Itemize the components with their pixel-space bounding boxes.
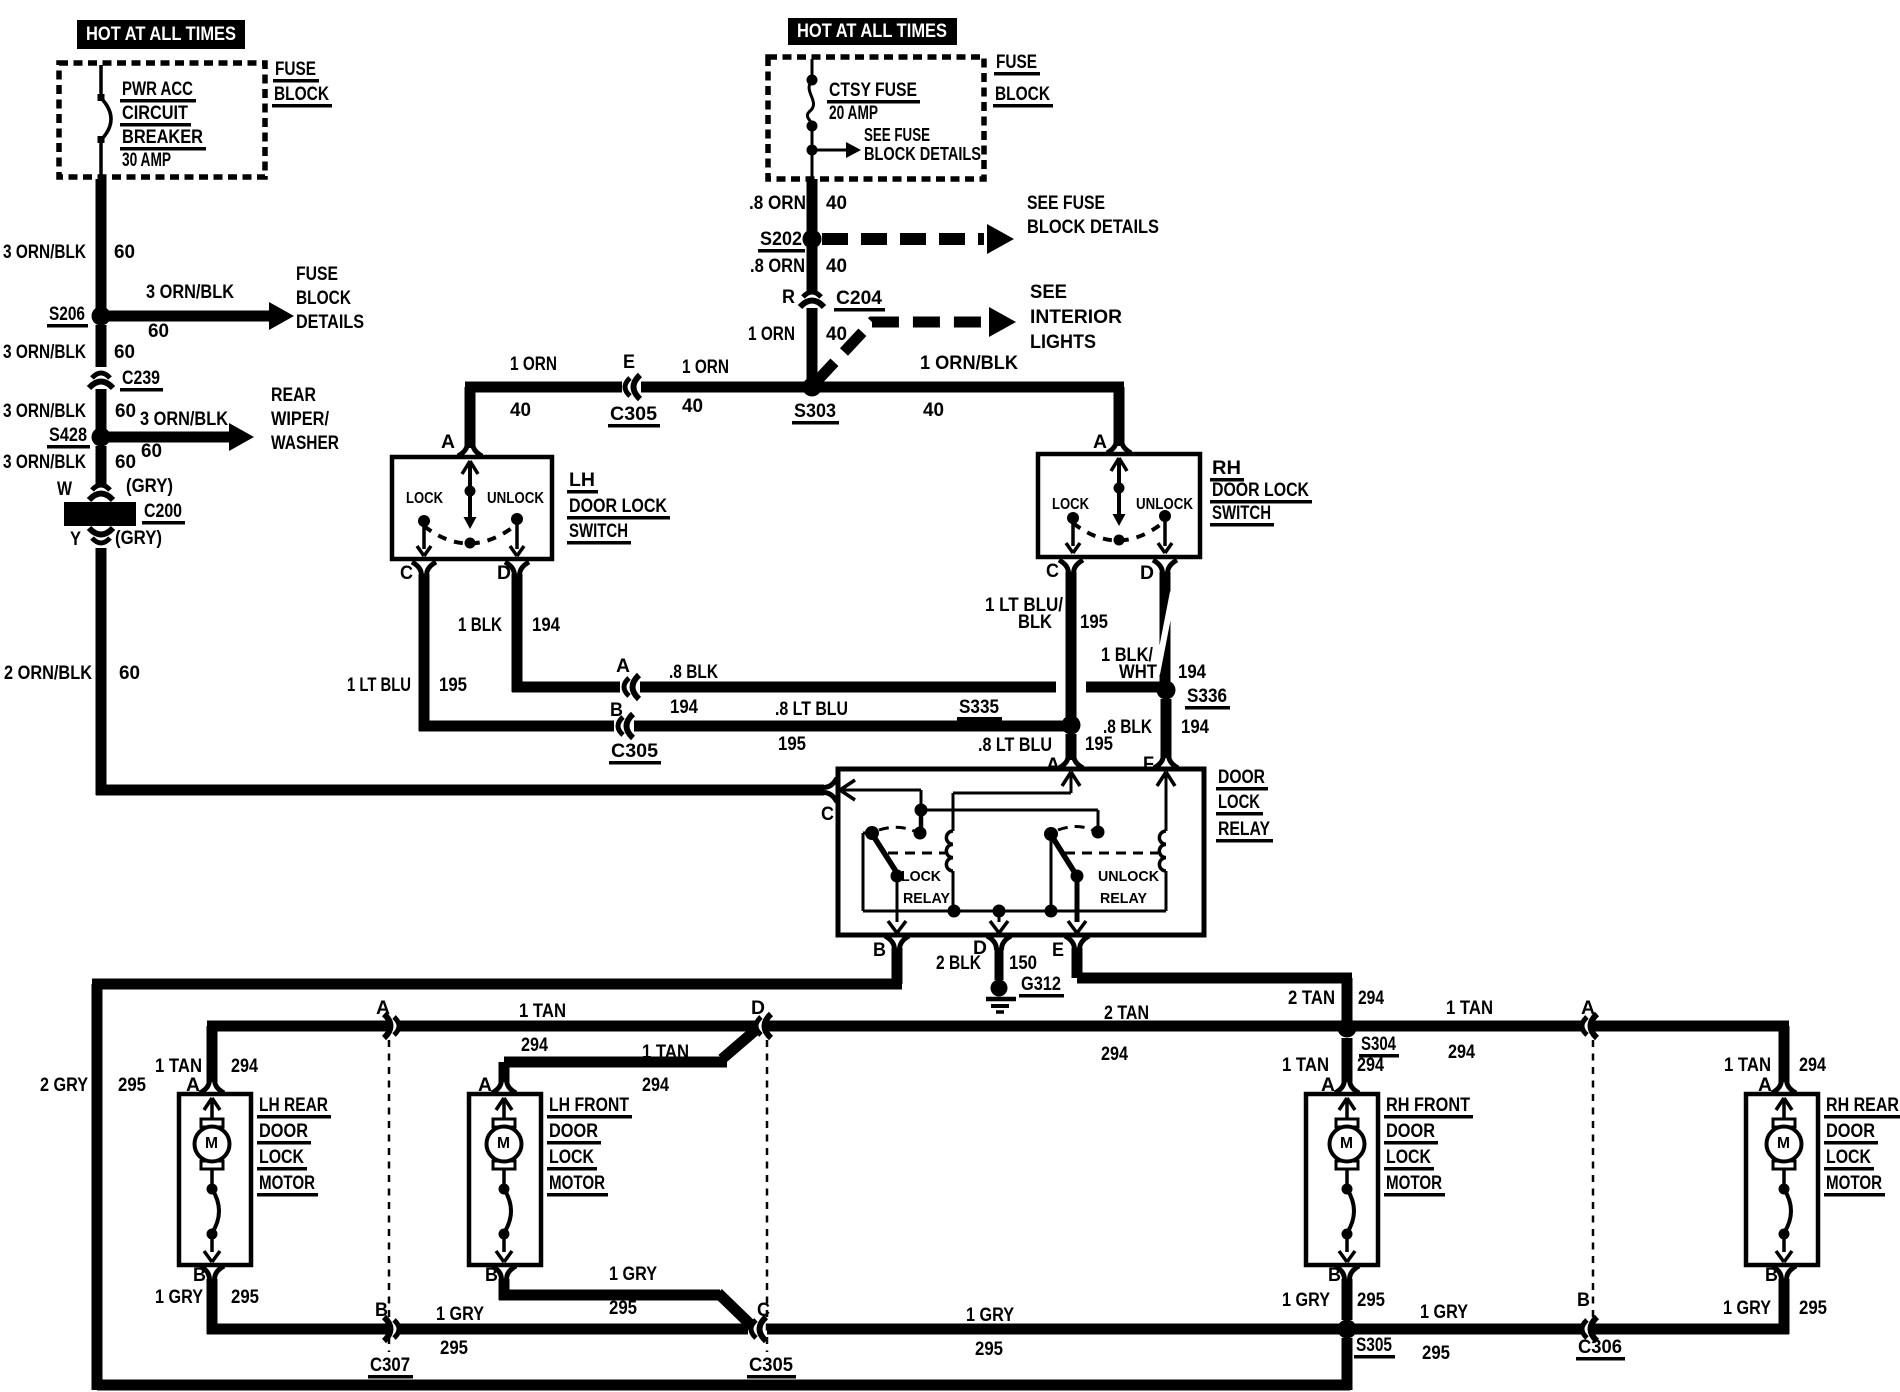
connector C305 pin A xyxy=(616,656,639,699)
svg-text:294: 294 xyxy=(1101,1044,1128,1065)
wire .8 LT BLU 195 (C305 B to S335) xyxy=(634,699,1066,755)
svg-text:B: B xyxy=(873,940,886,961)
svg-text:40: 40 xyxy=(826,193,847,214)
svg-text:40: 40 xyxy=(923,400,944,421)
svg-text:HOT AT ALL TIMES: HOT AT ALL TIMES xyxy=(86,24,236,45)
svg-text:195: 195 xyxy=(778,734,806,755)
wire 2 ORN/BLK 60 (C200 to relay pin C) xyxy=(96,548,825,796)
wire 1 ORN 40 (C204 to S303) xyxy=(807,308,818,387)
LH switch pin D xyxy=(497,562,529,584)
svg-text:S303: S303 xyxy=(794,401,836,422)
svg-text:3 ORN/BLK: 3 ORN/BLK xyxy=(3,401,86,422)
label FUSE BLOCK DETAILS xyxy=(296,264,364,333)
connector C305 pin C xyxy=(747,1300,796,1379)
ground G312 xyxy=(986,974,1064,1012)
svg-text:C: C xyxy=(1046,561,1059,582)
wire 2 TAN (relay E to S304) xyxy=(1072,948,1385,1028)
connector C305 pin D xyxy=(751,998,771,1038)
connector C306 pin B xyxy=(1576,1290,1625,1361)
svg-text:40: 40 xyxy=(826,256,847,277)
svg-text:DOOR: DOOR xyxy=(549,1121,598,1142)
svg-text:DETAILS: DETAILS xyxy=(296,312,364,333)
svg-text:60: 60 xyxy=(114,342,135,363)
connector C239 xyxy=(89,368,163,392)
svg-text:LOCK: LOCK xyxy=(1386,1147,1431,1168)
wire 1 GRY 295 (RH front motor B to S305) xyxy=(1282,1279,1385,1320)
svg-text:BLOCK: BLOCK xyxy=(995,84,1050,105)
relay pin D xyxy=(973,936,1011,959)
svg-text:1 ORN: 1 ORN xyxy=(510,354,557,375)
unlock relay fixed contact xyxy=(1092,826,1105,839)
wire 3 ORN/BLK 60 (C239 to S428) xyxy=(96,389,107,432)
unlock relay coil xyxy=(1065,772,1175,911)
label PWR ACC CIRCUIT BREAKER 30 AMP xyxy=(120,79,206,171)
svg-text:40: 40 xyxy=(682,396,703,417)
svg-text:1 GRY: 1 GRY xyxy=(1420,1302,1468,1323)
RH door lock switch box xyxy=(1038,454,1200,557)
svg-text:SWITCH: SWITCH xyxy=(569,521,628,542)
svg-text:S206: S206 xyxy=(49,304,85,325)
svg-text:1 GRY: 1 GRY xyxy=(609,1264,657,1285)
svg-text:FUSE: FUSE xyxy=(996,52,1037,73)
svg-text:60: 60 xyxy=(148,321,169,342)
wire .8 ORN 40 (S202 to C204) xyxy=(807,247,818,292)
relay internal bottom bus xyxy=(863,905,1166,918)
LH rear door lock motor xyxy=(179,1075,331,1286)
wire 1 TAN 294 (S304 to RH front motor A) xyxy=(1282,1038,1384,1082)
svg-text:60: 60 xyxy=(114,242,135,263)
wire .8 ORN 40 (fuse to S202) xyxy=(807,179,818,236)
svg-text:LH FRONT: LH FRONT xyxy=(549,1095,629,1116)
LH switch pin A xyxy=(441,432,482,456)
RH switch UNLOCK contact xyxy=(1136,496,1193,553)
wire .8 BLK 194 (C305 A to S336) xyxy=(640,662,1161,718)
label .8 ORN 40 xyxy=(750,256,847,277)
svg-text:LIGHTS: LIGHTS xyxy=(1030,332,1096,353)
svg-text:295: 295 xyxy=(1357,1290,1385,1311)
svg-text:R: R xyxy=(782,287,795,308)
svg-text:1 BLK: 1 BLK xyxy=(458,615,502,636)
LH switch UNLOCK contact xyxy=(487,490,544,556)
svg-text:UNLOCK: UNLOCK xyxy=(487,490,544,507)
svg-text:RH REAR: RH REAR xyxy=(1826,1095,1899,1116)
svg-text:2 TAN: 2 TAN xyxy=(1104,1003,1149,1024)
svg-text:1 GRY: 1 GRY xyxy=(1723,1298,1771,1319)
svg-text:195: 195 xyxy=(439,675,467,696)
node S335 xyxy=(957,697,1081,735)
C305 index dashed line xyxy=(766,1040,769,1352)
arrow to rear wiper/washer xyxy=(108,409,254,462)
svg-text:C307: C307 xyxy=(370,1355,410,1376)
connector C306 pin A xyxy=(1446,998,1597,1063)
svg-text:M: M xyxy=(205,1135,218,1152)
svg-text:S336: S336 xyxy=(1187,686,1227,707)
svg-text:PWR ACC: PWR ACC xyxy=(122,79,193,100)
label FUSE BLOCK (left) xyxy=(272,59,332,108)
svg-text:MOTOR: MOTOR xyxy=(549,1173,605,1194)
arrow see fuse block details (inside fuse block) xyxy=(812,125,981,164)
svg-text:CTSY FUSE: CTSY FUSE xyxy=(829,80,917,101)
svg-text:C305: C305 xyxy=(611,741,658,762)
label .8 ORN 40 xyxy=(749,193,847,214)
svg-text:A: A xyxy=(478,1075,492,1096)
svg-text:RH FRONT: RH FRONT xyxy=(1386,1095,1470,1116)
svg-text:M: M xyxy=(1777,1135,1790,1152)
LH switch dashed wiper arc xyxy=(424,524,517,544)
svg-text:M: M xyxy=(497,1135,510,1152)
node S305 xyxy=(1338,1302,1469,1390)
RH front door lock motor xyxy=(1306,1075,1473,1286)
svg-text:BLOCK DETAILS: BLOCK DETAILS xyxy=(864,144,981,164)
svg-text:B: B xyxy=(1577,1290,1590,1311)
wire 3 ORN/BLK 60 (S428 to C200) xyxy=(96,446,107,486)
svg-text:295: 295 xyxy=(231,1287,259,1308)
svg-text:194: 194 xyxy=(670,697,698,718)
label DOOR LOCK RELAY xyxy=(1216,767,1273,843)
svg-text:295: 295 xyxy=(1422,1343,1450,1364)
lock relay armature return wire xyxy=(863,833,872,911)
svg-text:3 ORN/BLK: 3 ORN/BLK xyxy=(3,342,86,363)
label CTSY FUSE 20 AMP xyxy=(827,80,920,124)
svg-text:150: 150 xyxy=(1009,953,1037,974)
svg-text:LOCK: LOCK xyxy=(1218,792,1260,813)
svg-text:294: 294 xyxy=(1448,1042,1475,1063)
svg-text:60: 60 xyxy=(115,452,136,473)
svg-text:BLOCK: BLOCK xyxy=(274,84,329,105)
lock relay coil xyxy=(888,772,1080,911)
RH rear door lock motor xyxy=(1746,1075,1900,1286)
svg-text:294: 294 xyxy=(1799,1055,1826,1076)
relay internal wire from pin C to contacts xyxy=(840,780,1098,830)
svg-text:1 GRY: 1 GRY xyxy=(966,1305,1014,1326)
svg-text:WASHER: WASHER xyxy=(271,433,339,454)
svg-text:1 TAN: 1 TAN xyxy=(1446,998,1493,1019)
svg-text:294: 294 xyxy=(642,1075,669,1096)
node S206 xyxy=(47,304,111,328)
lock relay fixed contact xyxy=(914,827,927,840)
svg-text:1 GRY: 1 GRY xyxy=(155,1287,203,1308)
svg-text:S428: S428 xyxy=(49,425,87,446)
svg-text:A: A xyxy=(441,432,455,453)
power source label HOT AT ALL TIMES (right) xyxy=(788,18,957,45)
label 3 ORN/BLK 60 xyxy=(3,452,136,473)
svg-text:194: 194 xyxy=(1178,662,1206,683)
wire 2 BLK 150 (relay D to ground) xyxy=(936,948,1037,980)
svg-text:FUSE: FUSE xyxy=(296,264,338,285)
svg-text:1 ORN: 1 ORN xyxy=(682,357,729,378)
wire 1 BLK/WHT 194 (RH D to S336) xyxy=(1101,572,1206,684)
svg-text:A: A xyxy=(1758,1075,1772,1096)
label SEE INTERIOR LIGHTS xyxy=(1030,282,1122,353)
svg-text:A: A xyxy=(1321,1075,1335,1096)
connector C307 pin B xyxy=(368,1300,413,1379)
svg-text:RELAY: RELAY xyxy=(1218,819,1270,840)
svg-text:C: C xyxy=(400,563,413,584)
svg-text:LH: LH xyxy=(569,470,595,491)
relay pin B xyxy=(873,936,909,961)
svg-text:Y: Y xyxy=(70,529,81,550)
svg-text:20 AMP: 20 AMP xyxy=(829,103,878,124)
RH switch common contact xyxy=(1111,458,1127,546)
connector C204 pin R xyxy=(782,287,885,312)
svg-text:295: 295 xyxy=(975,1339,1003,1360)
unlock relay armature xyxy=(1044,827,1092,912)
label REAR WIPER/WASHER xyxy=(271,385,339,454)
wire 1 GRY 295 (C306 B to RH rear motor B) xyxy=(1352,1279,1827,1335)
wire 1 LT BLU 195 (LH C to C305 B) xyxy=(347,574,614,732)
svg-text:F: F xyxy=(1143,754,1154,775)
label RH DOOR LOCK SWITCH xyxy=(1210,458,1312,527)
LH switch pin C xyxy=(400,562,436,584)
node S303 xyxy=(792,378,839,425)
svg-text:1 GRY: 1 GRY xyxy=(1282,1290,1330,1311)
svg-text:2 TAN: 2 TAN xyxy=(1288,988,1335,1009)
circuit breaker PWR ACC 30 AMP xyxy=(98,65,112,179)
wire 2 TAN 294 (C305 D to S304) xyxy=(767,1003,1347,1065)
fuse block (left, dashed box) xyxy=(59,63,265,177)
svg-text:.8 LT BLU: .8 LT BLU xyxy=(978,735,1052,756)
svg-text:.8 LT BLU: .8 LT BLU xyxy=(775,699,848,720)
svg-text:A: A xyxy=(186,1075,200,1096)
svg-text:SEE FUSE: SEE FUSE xyxy=(864,125,930,145)
svg-text:BLK: BLK xyxy=(1018,612,1052,633)
wire 1 TAN 294 (C307 A to LH rear motor A) xyxy=(155,1021,388,1083)
svg-text:WHT: WHT xyxy=(1119,662,1157,683)
svg-text:.8 ORN: .8 ORN xyxy=(750,256,805,277)
wire 1 GRY 295 (C305 C to S305) xyxy=(767,1305,1352,1360)
svg-text:2 BLK: 2 BLK xyxy=(936,953,981,974)
svg-text:HOT AT ALL TIMES: HOT AT ALL TIMES xyxy=(797,21,947,42)
label LH DOOR LOCK SWITCH xyxy=(567,470,670,545)
wire .8 LT BLU 195 (S335 to relay pin A) xyxy=(978,734,1113,760)
connector C307 pin A xyxy=(376,998,399,1038)
svg-text:M: M xyxy=(1340,1135,1353,1152)
svg-text:A: A xyxy=(1093,432,1107,453)
wire 1 GRY 295 (LH front motor B, diagonal) xyxy=(499,1264,753,1326)
svg-text:3 ORN/BLK: 3 ORN/BLK xyxy=(146,282,234,303)
svg-text:40: 40 xyxy=(826,324,847,345)
LH door lock switch box xyxy=(392,457,552,559)
C307 index dashed line xyxy=(388,1040,391,1352)
svg-text:REAR: REAR xyxy=(271,385,316,406)
wire 3 ORN/BLK 60 (S206 to C239) xyxy=(96,325,107,367)
svg-text:195: 195 xyxy=(1080,612,1108,633)
svg-text:194: 194 xyxy=(532,615,560,636)
svg-text:BLOCK: BLOCK xyxy=(296,288,351,309)
label 1 ORN 40 and pin E xyxy=(510,352,635,421)
svg-text:S305: S305 xyxy=(1356,1335,1392,1356)
svg-text:C: C xyxy=(821,804,834,825)
connector C305 pin E xyxy=(608,375,660,428)
RH switch pin A xyxy=(1093,432,1131,453)
svg-text:3 ORN/BLK: 3 ORN/BLK xyxy=(3,452,86,473)
label 2 ORN/BLK 60 xyxy=(4,663,140,684)
svg-text:C305: C305 xyxy=(749,1355,793,1376)
svg-text:S304: S304 xyxy=(1361,1034,1396,1055)
wire 1 ORN 40 (C305 E to S303) xyxy=(641,357,812,417)
svg-text:G312: G312 xyxy=(1021,974,1061,995)
svg-text:.8 BLK: .8 BLK xyxy=(669,662,718,683)
svg-text:E: E xyxy=(1052,940,1064,961)
svg-text:BLOCK DETAILS: BLOCK DETAILS xyxy=(1027,217,1159,238)
svg-text:LOCK: LOCK xyxy=(901,868,941,885)
node S304 xyxy=(1338,1019,1400,1058)
relay pin E xyxy=(1052,936,1089,961)
fuse block (right, dashed box) xyxy=(768,57,984,179)
svg-text:RELAY: RELAY xyxy=(903,890,950,907)
svg-text:294: 294 xyxy=(1358,988,1384,1009)
label UNLOCK RELAY (internal) xyxy=(1098,868,1159,907)
svg-text:295: 295 xyxy=(440,1338,468,1359)
LH switch common contact xyxy=(462,461,478,549)
svg-text:S335: S335 xyxy=(959,697,999,718)
svg-text:60: 60 xyxy=(119,663,140,684)
svg-text:30 AMP: 30 AMP xyxy=(122,150,171,171)
RH switch pin C xyxy=(1046,560,1083,582)
svg-text:294: 294 xyxy=(1357,1055,1384,1076)
arrow to fuse block details xyxy=(108,282,294,342)
LH switch LOCK contact xyxy=(406,490,443,556)
svg-text:1 GRY: 1 GRY xyxy=(436,1304,484,1325)
power source label HOT AT ALL TIMES (left) xyxy=(77,20,245,49)
connector C200 pin Y xyxy=(70,528,162,550)
svg-text:DOOR: DOOR xyxy=(1826,1121,1875,1142)
dashed arrow to see interior lights xyxy=(816,307,1016,382)
svg-text:LOCK: LOCK xyxy=(1826,1147,1871,1168)
svg-text:DOOR: DOOR xyxy=(259,1121,308,1142)
label SEE FUSE BLOCK DETAILS xyxy=(1027,193,1159,238)
wire 1 TAN 294 (C306 A to RH rear motor A) xyxy=(1352,1021,1826,1083)
node S336 xyxy=(1157,681,1231,710)
svg-text:3 ORN/BLK: 3 ORN/BLK xyxy=(3,242,86,263)
LH front door lock motor xyxy=(469,1075,632,1286)
relay pin A xyxy=(1046,754,1083,776)
svg-text:295: 295 xyxy=(1799,1298,1827,1319)
wire .8 BLK 194 (S336 to relay pin F) xyxy=(1103,699,1209,758)
svg-text:195: 195 xyxy=(1085,734,1113,755)
svg-text:1 TAN: 1 TAN xyxy=(155,1056,202,1077)
svg-text:DOOR: DOOR xyxy=(1218,767,1265,788)
svg-text:C305: C305 xyxy=(610,404,657,425)
svg-text:LOCK: LOCK xyxy=(259,1147,304,1168)
svg-text:A: A xyxy=(1046,755,1060,776)
RH switch dashed wiper arc xyxy=(1073,521,1165,541)
node S202 xyxy=(758,229,822,253)
svg-text:SEE: SEE xyxy=(1030,282,1067,303)
svg-text:BREAKER: BREAKER xyxy=(122,127,203,148)
RH switch pin D xyxy=(1140,560,1177,584)
svg-text:C239: C239 xyxy=(122,368,160,389)
svg-text:A: A xyxy=(616,656,630,677)
svg-text:WIPER/: WIPER/ xyxy=(271,409,330,430)
connector C200 pin W xyxy=(57,476,173,500)
wire 3 ORN/BLK circuit 60 (breaker to S206) xyxy=(96,179,107,311)
svg-text:1 ORN/BLK: 1 ORN/BLK xyxy=(920,353,1018,374)
wire 1 ORN 40 (LH switch A to C305 E) xyxy=(465,382,623,449)
svg-text:60: 60 xyxy=(115,401,136,422)
svg-text:295: 295 xyxy=(118,1075,146,1096)
svg-text:(GRY): (GRY) xyxy=(115,528,162,549)
relay pin D internal arrow xyxy=(990,911,1008,933)
svg-text:1 TAN: 1 TAN xyxy=(642,1042,689,1063)
RH switch LOCK contact xyxy=(1052,496,1089,553)
svg-text:FUSE: FUSE xyxy=(275,59,316,80)
connector C305 pin B xyxy=(609,700,661,765)
label 3 ORN/BLK 60 xyxy=(3,342,135,363)
svg-text:2 GRY: 2 GRY xyxy=(40,1075,88,1096)
svg-text:W: W xyxy=(57,479,72,500)
svg-text:1 ORN: 1 ORN xyxy=(748,324,795,345)
svg-text:1 TAN: 1 TAN xyxy=(1282,1055,1329,1076)
svg-text:INTERIOR: INTERIOR xyxy=(1030,307,1122,328)
svg-text:LOCK: LOCK xyxy=(1052,496,1089,513)
wire 1 ORN/BLK 40 (S303 to RH switch A) xyxy=(812,353,1125,446)
wire 1 TAN 294 (C305 D to LH front motor A) xyxy=(499,1028,759,1096)
connector C200 xyxy=(64,501,185,526)
svg-text:LOCK: LOCK xyxy=(549,1147,594,1168)
wire 1 GRY 295 (C307 B to C305 C) xyxy=(398,1304,748,1359)
label 3 ORN/BLK 60 xyxy=(3,242,135,263)
svg-text:MOTOR: MOTOR xyxy=(1386,1173,1442,1194)
svg-text:D: D xyxy=(751,998,765,1019)
svg-text:C200: C200 xyxy=(144,501,182,522)
wire 2 GRY 295 (relay B to bottom bus) xyxy=(40,948,1350,1391)
node S428 xyxy=(47,425,111,449)
svg-text:60: 60 xyxy=(141,441,162,462)
wire 1 TAN 294 (C305 D to C307 A) xyxy=(398,1001,757,1056)
svg-text:MOTOR: MOTOR xyxy=(259,1173,315,1194)
relay pin B internal arrow xyxy=(888,878,906,933)
label 1 ORN 40 xyxy=(748,324,847,345)
svg-text:(GRY): (GRY) xyxy=(126,476,173,497)
svg-text:194: 194 xyxy=(1181,717,1209,738)
CTSY fuse 20 AMP xyxy=(807,59,818,179)
svg-text:S202: S202 xyxy=(760,229,802,250)
svg-text:RH: RH xyxy=(1212,458,1241,479)
svg-text:40: 40 xyxy=(510,400,531,421)
svg-text:D: D xyxy=(1140,563,1154,584)
label LOCK RELAY (internal) xyxy=(901,868,950,907)
svg-text:DOOR LOCK: DOOR LOCK xyxy=(1212,480,1309,501)
svg-text:UNLOCK: UNLOCK xyxy=(1098,868,1159,885)
svg-text:DOOR: DOOR xyxy=(1386,1121,1435,1142)
svg-text:294: 294 xyxy=(521,1035,548,1056)
dashed arrow to see fuse block details xyxy=(822,224,1014,254)
label FUSE BLOCK (right) xyxy=(993,52,1053,108)
door lock relay box xyxy=(838,769,1204,935)
svg-text:LH REAR: LH REAR xyxy=(259,1095,328,1116)
relay pin C xyxy=(821,778,837,825)
wire 1 GRY 295 (LH rear motor B to C307 B) xyxy=(155,1279,388,1335)
svg-text:295: 295 xyxy=(609,1298,637,1319)
wire 1 LT BLU/BLK 195 (RH C to S335) xyxy=(985,572,1108,720)
label 3 ORN/BLK 60 xyxy=(3,401,136,422)
svg-text:MOTOR: MOTOR xyxy=(1826,1173,1882,1194)
relay pin F xyxy=(1143,754,1178,775)
svg-text:1 LT BLU: 1 LT BLU xyxy=(347,675,411,696)
svg-text:1 TAN: 1 TAN xyxy=(519,1001,566,1022)
relay pin E internal arrow xyxy=(1068,876,1086,933)
svg-text:294: 294 xyxy=(231,1056,258,1077)
svg-text:DOOR LOCK: DOOR LOCK xyxy=(569,496,667,517)
svg-text:LOCK: LOCK xyxy=(406,490,443,507)
svg-text:1 TAN: 1 TAN xyxy=(1724,1055,1771,1076)
svg-text:CIRCUIT: CIRCUIT xyxy=(122,103,188,124)
svg-text:E: E xyxy=(623,352,635,373)
svg-text:SEE FUSE: SEE FUSE xyxy=(1027,193,1105,214)
svg-text:3 ORN/BLK: 3 ORN/BLK xyxy=(140,409,228,430)
C306 index dashed line xyxy=(1592,1040,1595,1320)
